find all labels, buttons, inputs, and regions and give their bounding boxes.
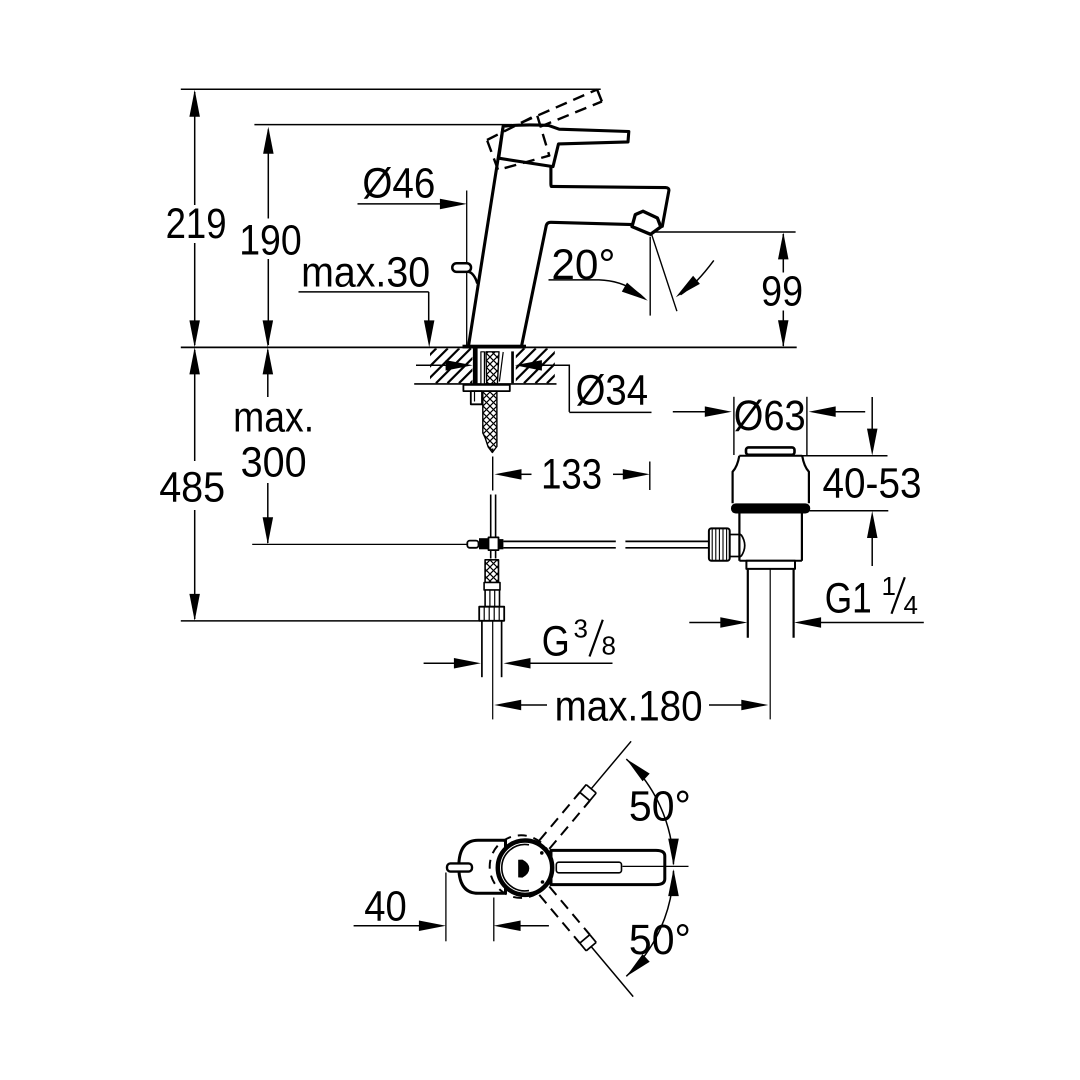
svg-text:50°: 50° (629, 784, 691, 831)
svg-text:1: 1 (882, 571, 896, 601)
svg-text:Ø34: Ø34 (576, 368, 649, 415)
svg-text:190: 190 (239, 217, 302, 264)
svg-text:max.30: max.30 (301, 250, 430, 297)
svg-text:G: G (542, 619, 570, 666)
svg-text:Ø63: Ø63 (734, 393, 806, 440)
svg-text:485: 485 (159, 465, 225, 512)
svg-text:50°: 50° (629, 917, 691, 964)
svg-text:99: 99 (761, 269, 803, 316)
svg-text:Ø46: Ø46 (362, 161, 435, 208)
svg-text:40: 40 (364, 883, 407, 930)
svg-text:max.180: max.180 (555, 684, 703, 731)
svg-text:max.: max. (233, 395, 314, 442)
svg-text:133: 133 (541, 452, 602, 499)
svg-text:20°: 20° (551, 242, 615, 289)
svg-text:300: 300 (241, 439, 307, 486)
svg-text:40-53: 40-53 (823, 461, 922, 508)
svg-text:8: 8 (602, 631, 616, 661)
svg-text:G1: G1 (825, 575, 872, 622)
svg-text:4: 4 (904, 590, 918, 620)
svg-text:219: 219 (166, 201, 227, 248)
svg-text:3: 3 (574, 614, 588, 644)
